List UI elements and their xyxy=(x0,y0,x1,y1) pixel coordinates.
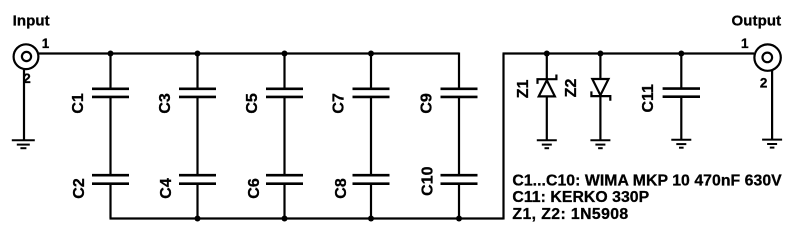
capacitor C7 xyxy=(353,89,390,97)
capacitor C8 xyxy=(353,175,390,184)
node: bottom rail junction at C4 branch xyxy=(195,216,201,222)
svg-text:Z1: Z1 xyxy=(515,79,532,98)
wire: Z2 cathode to ground xyxy=(599,96,601,140)
svg-text:C6: C6 xyxy=(246,178,263,199)
wire: input pin 2 to ground xyxy=(23,69,25,141)
wire: branch 4 top rail to C7 xyxy=(370,54,372,89)
capacitor C4 xyxy=(179,175,216,184)
node: top rail junction at C3 branch xyxy=(195,51,201,57)
node: right rail junction at Z2 xyxy=(597,51,603,57)
wire: C6 to bottom rail xyxy=(283,184,285,218)
wire: C3 to C4 xyxy=(196,98,198,175)
svg-text:C4: C4 xyxy=(158,178,175,199)
wire: C11 to ground xyxy=(680,97,682,139)
node: right rail junction at Z1 xyxy=(544,51,550,57)
ground (C11) xyxy=(671,140,691,148)
svg-text:C9: C9 xyxy=(419,93,436,114)
wire: top rail from input pin 1 to C9 branch xyxy=(39,52,460,54)
svg-text:2: 2 xyxy=(760,75,768,90)
node: bottom rail junction at C6 branch xyxy=(282,216,288,222)
capacitor C11 xyxy=(663,89,700,97)
output connector J2 xyxy=(754,44,780,70)
svg-text:C5: C5 xyxy=(244,93,261,114)
input connector J1 xyxy=(14,44,39,69)
wire: C1 to C2 xyxy=(109,98,111,175)
svg-text:C1: C1 xyxy=(70,93,87,114)
svg-text:C3: C3 xyxy=(157,93,174,114)
node: bottom rail junction at C8 branch xyxy=(368,216,374,222)
node: top rail junction at C7 branch xyxy=(368,51,374,57)
svg-text:Output: Output xyxy=(732,12,782,29)
capacitor C9 xyxy=(441,89,478,97)
capacitor C5 xyxy=(266,89,303,97)
node: top rail junction at C1 branch xyxy=(108,51,114,57)
svg-text:C7: C7 xyxy=(331,93,348,114)
ground (input) xyxy=(12,140,35,148)
wire: C8 to bottom rail xyxy=(370,184,372,218)
wire: bottom rail from C2 branch to riser xyxy=(110,217,504,219)
node: top rail junction at C5 branch xyxy=(282,51,288,57)
wire: C5 to C6 xyxy=(283,98,285,175)
svg-text:C11: C11 xyxy=(640,84,657,113)
capacitor C10 xyxy=(441,175,478,184)
svg-text:1: 1 xyxy=(741,36,749,51)
capacitor C2 xyxy=(92,175,129,184)
wire: top rail right section to output pin 1 xyxy=(503,52,755,54)
zener diode Z1 xyxy=(538,75,557,97)
wire: C7 to C8 xyxy=(370,98,372,175)
svg-text:Z1, Z2: 1N5908: Z1, Z2: 1N5908 xyxy=(512,206,628,223)
svg-text:Z2: Z2 xyxy=(563,79,580,98)
svg-text:C1...C10: WIMA MKP 10 470nF 63: C1...C10: WIMA MKP 10 470nF 630V xyxy=(512,172,782,189)
wire: branch 1 top rail to C1 xyxy=(109,54,111,89)
zener diode Z2 xyxy=(591,79,610,101)
wire: branch 2 top rail to C3 xyxy=(196,54,198,89)
ground (Z1) xyxy=(537,140,557,148)
wire: C2 to bottom rail xyxy=(109,184,111,218)
wire: branch 5 top rail corner to C9 xyxy=(458,53,460,89)
capacitor C3 xyxy=(179,89,216,97)
node: bottom rail junction at C10 branch xyxy=(456,216,462,222)
wire: rail to Z1 cathode xyxy=(546,54,548,80)
wire: Z1 anode to ground xyxy=(546,96,548,140)
svg-text:C11: KERKO 330P: C11: KERKO 330P xyxy=(512,189,649,206)
svg-text:C2: C2 xyxy=(71,178,88,199)
wire: rail to C11 xyxy=(680,54,682,88)
svg-text:C10: C10 xyxy=(420,166,437,195)
wire: branch 3 top rail to C5 xyxy=(283,54,285,89)
wire: C9 to C10 xyxy=(458,98,460,175)
wire: C4 to bottom rail xyxy=(196,184,198,218)
svg-text:Input: Input xyxy=(13,12,50,29)
capacitor C1 xyxy=(92,89,129,97)
ground (output) xyxy=(762,140,782,148)
wire: riser from bottom rail to output rail xyxy=(502,54,504,220)
svg-text:1: 1 xyxy=(42,36,50,51)
wire: rail to Z2 anode xyxy=(599,54,601,80)
wire: C10 to bottom rail xyxy=(458,184,460,218)
svg-text:C8: C8 xyxy=(333,178,350,199)
wire: output pin 2 to ground xyxy=(771,70,773,139)
capacitor C6 xyxy=(266,175,303,184)
ground (Z2) xyxy=(590,140,610,148)
node: right rail junction at C11 xyxy=(678,51,684,57)
